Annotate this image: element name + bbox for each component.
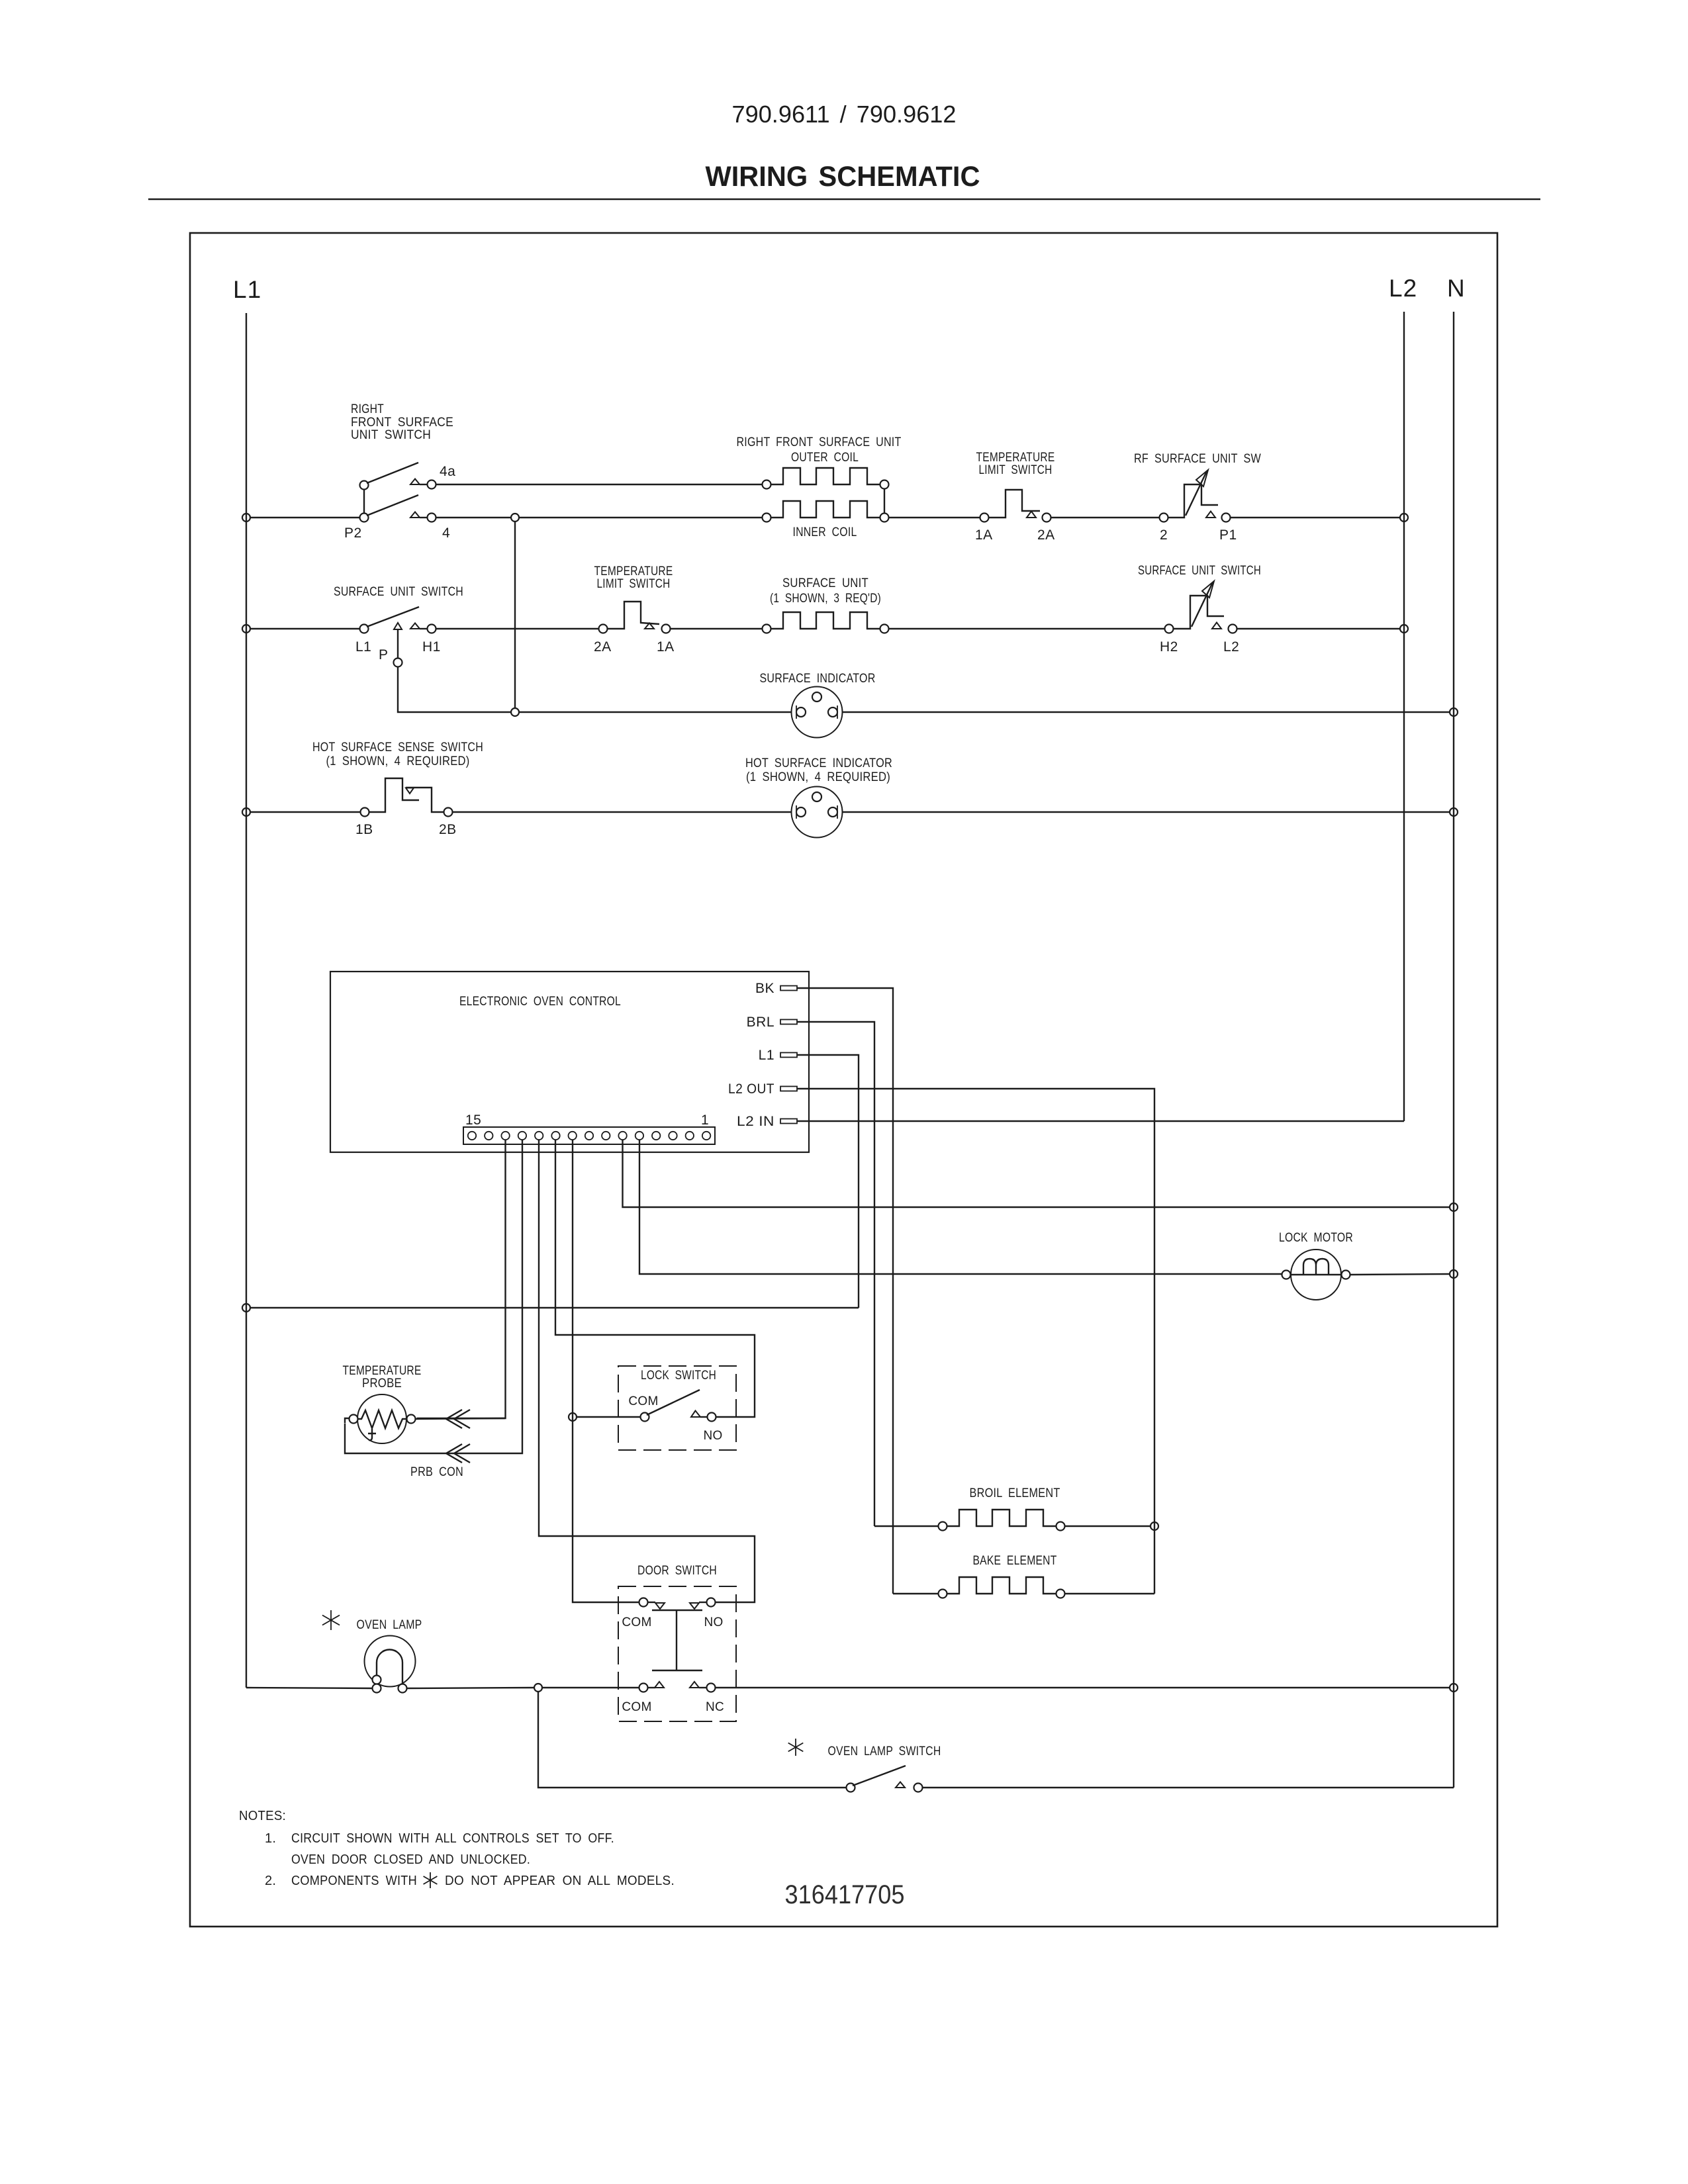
wire pin12 to probe return — [345, 1140, 522, 1453]
svg-text:CIRCUIT SHOWN WITH ALL CONTROL: CIRCUIT SHOWN WITH ALL CONTROLS SET TO O… — [291, 1831, 614, 1846]
junction lock switch tap — [569, 1413, 577, 1421]
svg-text:L1: L1 — [355, 639, 371, 655]
terminal L2 IN lug — [780, 1119, 797, 1124]
title underline rule — [148, 199, 1540, 201]
svg-text:OUTER COIL: OUTER COIL — [791, 451, 859, 465]
svg-text:L2 OUT: L2 OUT — [728, 1081, 774, 1097]
wire N rail — [1453, 312, 1454, 1788]
svg-text:COM: COM — [622, 1700, 651, 1714]
wire BRL to broil — [797, 1022, 874, 1526]
wire surface indicator to N — [843, 711, 1450, 713]
switch oven lamp switch — [847, 1784, 855, 1792]
svg-text:BAKE ELEMENT: BAKE ELEMENT — [973, 1554, 1057, 1568]
heater broil element — [947, 1510, 1056, 1526]
connector EOC strip — [463, 1127, 715, 1144]
wire probe left loop — [345, 1418, 350, 1423]
wire junction to door COM — [542, 1687, 639, 1688]
svg-text:P: P — [379, 647, 389, 662]
svg-text:LIMIT SWITCH: LIMIT SWITCH — [597, 577, 671, 591]
heater outer coil — [771, 468, 880, 484]
terminal L1 lug — [780, 1053, 797, 1058]
svg-text:WIRING SCHEMATIC: WIRING SCHEMATIC — [706, 161, 980, 193]
svg-text:BK: BK — [755, 981, 774, 996]
svg-text:1B: 1B — [355, 822, 373, 837]
junction N pin6 — [1450, 1203, 1458, 1211]
lamp hot surface indicator — [792, 787, 843, 838]
svg-text:DO NOT APPEAR ON ALL MODELS.: DO NOT APPEAR ON ALL MODELS. — [445, 1874, 675, 1888]
wire pin11 to door NO — [539, 1140, 755, 1602]
svg-text:NC: NC — [706, 1700, 724, 1714]
switch lock switch — [641, 1413, 649, 1422]
wire oven lamp switch to N — [923, 1787, 1454, 1788]
switch surface unit switch right — [1165, 625, 1174, 633]
wire L1 to 1B — [250, 811, 361, 813]
terminal circle P — [394, 659, 402, 667]
junction L1 row3 — [242, 808, 250, 816]
junction L2OUT broil — [1150, 1522, 1158, 1530]
svg-text:OVEN DOOR CLOSED AND UNLOCKED.: OVEN DOOR CLOSED AND UNLOCKED. — [291, 1852, 530, 1867]
svg-text:RIGHT: RIGHT — [351, 402, 384, 416]
wire pin5 to lock motor — [639, 1140, 1282, 1274]
switch RF surface unit SW — [1160, 514, 1168, 522]
svg-text:790.9611 / 790.9612: 790.9611 / 790.9612 — [732, 101, 957, 128]
wire L2 rail — [1403, 312, 1405, 1121]
svg-text:NOTES:: NOTES: — [239, 1809, 286, 1823]
wire node A drop — [514, 522, 516, 708]
wire P line to indicator — [519, 711, 791, 713]
wire BRL to broil coil — [874, 1525, 939, 1527]
svg-text:(1 SHOWN, 4 REQUIRED): (1 SHOWN, 4 REQUIRED) — [746, 770, 890, 784]
wire pin10 to lock NO — [555, 1140, 755, 1417]
wire inner coil to 1A — [889, 517, 980, 518]
wire tap to lock COM — [577, 1416, 641, 1418]
svg-text:1.: 1. — [265, 1831, 276, 1846]
svg-text:L1: L1 — [233, 276, 261, 303]
oven lamp asterisk — [330, 1610, 332, 1630]
thermal switch temperature limit row1 — [980, 514, 989, 522]
probe thermocouple mark — [368, 1429, 376, 1440]
wire 2B to hot indicator — [453, 811, 792, 813]
junction L2 row2 — [1400, 625, 1408, 633]
wire P1 to L2 rail — [1231, 517, 1401, 518]
svg-text:COMPONENTS WITH: COMPONENTS WITH — [291, 1874, 417, 1888]
svg-text:NO: NO — [704, 1615, 723, 1629]
wire pin6 to N — [623, 1140, 1450, 1207]
wire L1 rail to EOC L1 — [250, 1307, 859, 1308]
svg-text:H2: H2 — [1160, 639, 1178, 655]
svg-text:PROBE: PROBE — [362, 1377, 402, 1390]
svg-text:ELECTRONIC OVEN CONTROL: ELECTRONIC OVEN CONTROL — [459, 995, 621, 1009]
svg-text:DOOR SWITCH: DOOR SWITCH — [637, 1564, 717, 1578]
thermal switch temperature limit row2 — [599, 625, 608, 633]
wire L2 OUT drop — [797, 1089, 1154, 1594]
pilot tap P arrow — [394, 623, 402, 629]
svg-text:NO: NO — [703, 1429, 722, 1443]
IC electronic oven control box — [330, 972, 809, 1152]
wire surface coil to H2 — [889, 628, 1165, 629]
svg-text:2: 2 — [1160, 527, 1168, 543]
svg-text:TEMPERATURE: TEMPERATURE — [976, 451, 1055, 465]
thermal switch hot surface sense — [361, 808, 369, 817]
svg-text:15: 15 — [465, 1113, 481, 1128]
svg-text:BROIL ELEMENT: BROIL ELEMENT — [970, 1486, 1060, 1500]
svg-text:SURFACE UNIT SWITCH: SURFACE UNIT SWITCH — [334, 585, 463, 599]
svg-text:316417705: 316417705 — [785, 1880, 905, 1909]
svg-text:2A: 2A — [1037, 527, 1055, 543]
wire junction A to inner coil — [519, 517, 763, 518]
svg-text:HOT SURFACE INDICATOR: HOT SURFACE INDICATOR — [745, 756, 892, 770]
svg-text:COM: COM — [628, 1394, 658, 1408]
svg-text:(1 SHOWN, 3 REQ'D): (1 SHOWN, 3 REQ'D) — [770, 592, 881, 606]
junction L1 row1 — [242, 514, 250, 522]
wire 4 to junction A — [436, 517, 512, 518]
junction N door row — [1450, 1684, 1458, 1692]
svg-text:COM: COM — [622, 1615, 651, 1629]
junction node A — [511, 514, 519, 522]
svg-text:L2: L2 — [1223, 639, 1239, 655]
wire H1 to 2A row2 — [436, 628, 599, 629]
switch RF surface unit switch poles — [360, 481, 369, 490]
wire BK to bake — [797, 988, 893, 1594]
svg-text:SURFACE UNIT: SURFACE UNIT — [782, 576, 868, 590]
switch door lower NC contact — [690, 1682, 699, 1688]
wire L2 IN from L2 rail — [797, 1120, 1404, 1122]
svg-text:RIGHT FRONT SURFACE UNIT: RIGHT FRONT SURFACE UNIT — [737, 435, 902, 449]
junction L1 row2 — [242, 625, 250, 633]
svg-text:SURFACE UNIT SWITCH: SURFACE UNIT SWITCH — [1138, 564, 1261, 578]
junction node A2 — [511, 708, 519, 716]
junction N hot indicator — [1450, 808, 1458, 816]
svg-text:LIMIT SWITCH: LIMIT SWITCH — [979, 463, 1053, 477]
svg-text:N: N — [1447, 275, 1466, 302]
svg-text:BRL: BRL — [747, 1015, 774, 1030]
svg-text:FRONT SURFACE: FRONT SURFACE — [351, 416, 453, 430]
switch door upper NO contact — [690, 1603, 699, 1609]
motor lock motor — [1291, 1250, 1341, 1300]
wire 1A to surface coil — [671, 628, 763, 629]
svg-text:OVEN LAMP SWITCH: OVEN LAMP SWITCH — [828, 1745, 941, 1758]
wire broil to L2OUT — [1066, 1525, 1150, 1527]
svg-text:2B: 2B — [439, 822, 457, 837]
wire outer-inner coil link — [884, 489, 885, 514]
svg-text:2A: 2A — [594, 639, 612, 655]
connector PRB CON chevrons top — [446, 1410, 462, 1428]
svg-text:H1: H1 — [422, 639, 441, 655]
svg-text:L2 IN: L2 IN — [737, 1114, 774, 1129]
svg-text:4a: 4a — [440, 464, 455, 479]
wire BK to bake coil — [893, 1593, 939, 1594]
svg-text:LOCK SWITCH: LOCK SWITCH — [641, 1369, 716, 1383]
svg-text:1A: 1A — [975, 527, 993, 543]
junction N surface indicator — [1450, 708, 1458, 716]
door switch actuator — [652, 1610, 702, 1611]
svg-text:SURFACE INDICATOR: SURFACE INDICATOR — [760, 672, 876, 686]
svg-text:INNER COIL: INNER COIL — [793, 525, 857, 539]
wire door NC to N — [716, 1687, 1450, 1688]
terminal BRL lug — [780, 1020, 797, 1024]
svg-text:HOT SURFACE SENSE SWITCH: HOT SURFACE SENSE SWITCH — [312, 741, 483, 754]
oven lamp switch asterisk — [795, 1739, 796, 1756]
terminal BK lug — [780, 986, 797, 991]
svg-text:4: 4 — [442, 525, 450, 541]
wire 2A to switch 2 — [1051, 517, 1160, 518]
wire lock motor to N — [1350, 1274, 1450, 1275]
wire lamp tap drop — [538, 1692, 847, 1788]
svg-text:PRB CON: PRB CON — [410, 1465, 463, 1479]
junction L2 row1 — [1400, 514, 1408, 522]
box lock switch dashed — [618, 1366, 736, 1450]
svg-text:L1: L1 — [759, 1048, 774, 1063]
terminal L2 OUT lug — [780, 1087, 797, 1091]
box door switch dashed — [618, 1586, 736, 1721]
junction oven lamp switch tap — [534, 1684, 542, 1692]
wire 4a to outer coil — [436, 484, 763, 485]
lamp surface indicator — [792, 687, 843, 738]
svg-text:P1: P1 — [1219, 527, 1237, 543]
svg-text:1A: 1A — [657, 639, 675, 655]
wire pin13 to probe — [417, 1140, 506, 1418]
wire L1 to P2 — [250, 517, 360, 518]
switch door upper COM contact — [639, 1598, 648, 1607]
wire L1 to oven lamp — [246, 1688, 373, 1688]
svg-text:P2: P2 — [344, 525, 362, 541]
svg-text:LOCK MOTOR: LOCK MOTOR — [1279, 1231, 1353, 1245]
wire pin9 to door COM — [573, 1140, 639, 1602]
resistor temperature probe — [357, 1394, 406, 1443]
connector pin circles — [468, 1132, 476, 1140]
junction L1 eoc tap — [242, 1304, 250, 1312]
junction N lock motor — [1450, 1270, 1458, 1278]
heater inner coil — [771, 501, 880, 518]
contact 4a — [410, 479, 420, 485]
svg-text:OVEN LAMP: OVEN LAMP — [357, 1618, 422, 1632]
svg-text:2.: 2. — [265, 1874, 276, 1888]
wire probe to PRB CON — [416, 1418, 506, 1419]
switch surface unit switch left — [360, 625, 369, 633]
wire P drop — [398, 667, 511, 713]
connector PRB CON chevrons bottom — [446, 1444, 462, 1463]
note 2 asterisk — [430, 1872, 431, 1888]
wire L1 to switch row2 — [250, 628, 360, 629]
svg-text:UNIT SWITCH: UNIT SWITCH — [351, 428, 431, 442]
contact 4 — [410, 512, 420, 518]
lamp oven lamp — [365, 1636, 416, 1687]
wire hot indicator to N — [843, 811, 1450, 813]
switch door lower COM contact — [639, 1684, 648, 1692]
wire L1 rail — [246, 313, 247, 1688]
heater bake element — [947, 1577, 1056, 1594]
wire oven lamp to junction — [407, 1688, 534, 1688]
svg-text:TEMPERATURE: TEMPERATURE — [343, 1364, 422, 1378]
heater surface unit coil — [771, 612, 880, 629]
svg-text:(1 SHOWN, 4 REQUIRED): (1 SHOWN, 4 REQUIRED) — [326, 754, 470, 768]
svg-text:L2: L2 — [1389, 275, 1417, 302]
svg-text:RF SURFACE UNIT SW: RF SURFACE UNIT SW — [1134, 452, 1261, 466]
wire L2sw to L2 rail — [1237, 628, 1400, 629]
svg-text:1: 1 — [701, 1113, 709, 1128]
wire L1 out — [797, 1055, 859, 1308]
svg-text:TEMPERATURE: TEMPERATURE — [594, 565, 673, 578]
wire bake to L2OUT — [1066, 1593, 1155, 1594]
